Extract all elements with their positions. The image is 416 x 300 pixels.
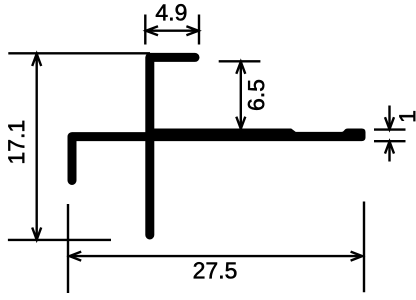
- dim 1 arrow up: [385, 142, 394, 154]
- dim 1 arrow down: [385, 117, 394, 129]
- dim 17.1 extension line top: [8, 52, 150, 54]
- dim 1 leader bottom: [388, 142, 390, 162]
- dim 1 leader top: [388, 106, 390, 130]
- dim 4.9 arrow left: [146, 26, 158, 35]
- profile left arm and left leg: [72, 137, 152, 181]
- dim 27.5 extension line right: [363, 202, 365, 293]
- dim 27.5 extension line left: [67, 204, 69, 293]
- dim 4.9 extension line left: [144, 15, 146, 45]
- profile right arm with step and end cap: [146, 129, 366, 142]
- dim 4.9 arrow right: [186, 26, 198, 35]
- dim 6.5 extension line top: [219, 60, 261, 62]
- dim 4.9 extension line right: [198, 15, 200, 45]
- dim 4.9 dimension line: [146, 30, 199, 32]
- dim 17.1 dimension line: [36, 54, 38, 240]
- dim 17.1 arrow top: [32, 54, 41, 66]
- label 4.9: [156, 4, 186, 20]
- profile top hook and vertical bar: [150, 57, 195, 235]
- label 6.5: [248, 80, 264, 110]
- dim 17.1 arrow bottom: [32, 228, 41, 240]
- dim 27.5 arrow right: [351, 252, 363, 261]
- dim 6.5 arrow top: [236, 62, 245, 74]
- label 17.1: [8, 121, 24, 163]
- label 27.5: [194, 262, 237, 278]
- dim 6.5 dimension line: [240, 62, 242, 129]
- dim 1 tick bottom: [374, 140, 406, 142]
- dim 27.5 arrow left: [70, 252, 82, 261]
- dim 27.5 dimension line: [70, 255, 362, 257]
- dim 1 tick top: [374, 128, 406, 130]
- label 1: [399, 111, 415, 121]
- dim 6.5 arrow bottom: [236, 117, 245, 129]
- dim 17.1 extension line bottom: [8, 239, 111, 241]
